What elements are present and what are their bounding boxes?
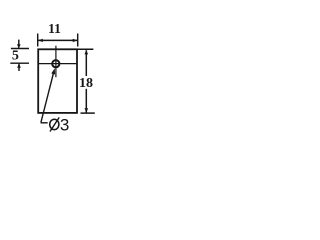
svg-text:11: 11 [48,21,61,36]
svg-text:3: 3 [60,115,69,134]
svg-text:5: 5 [12,49,19,64]
svg-text:18: 18 [79,76,93,91]
